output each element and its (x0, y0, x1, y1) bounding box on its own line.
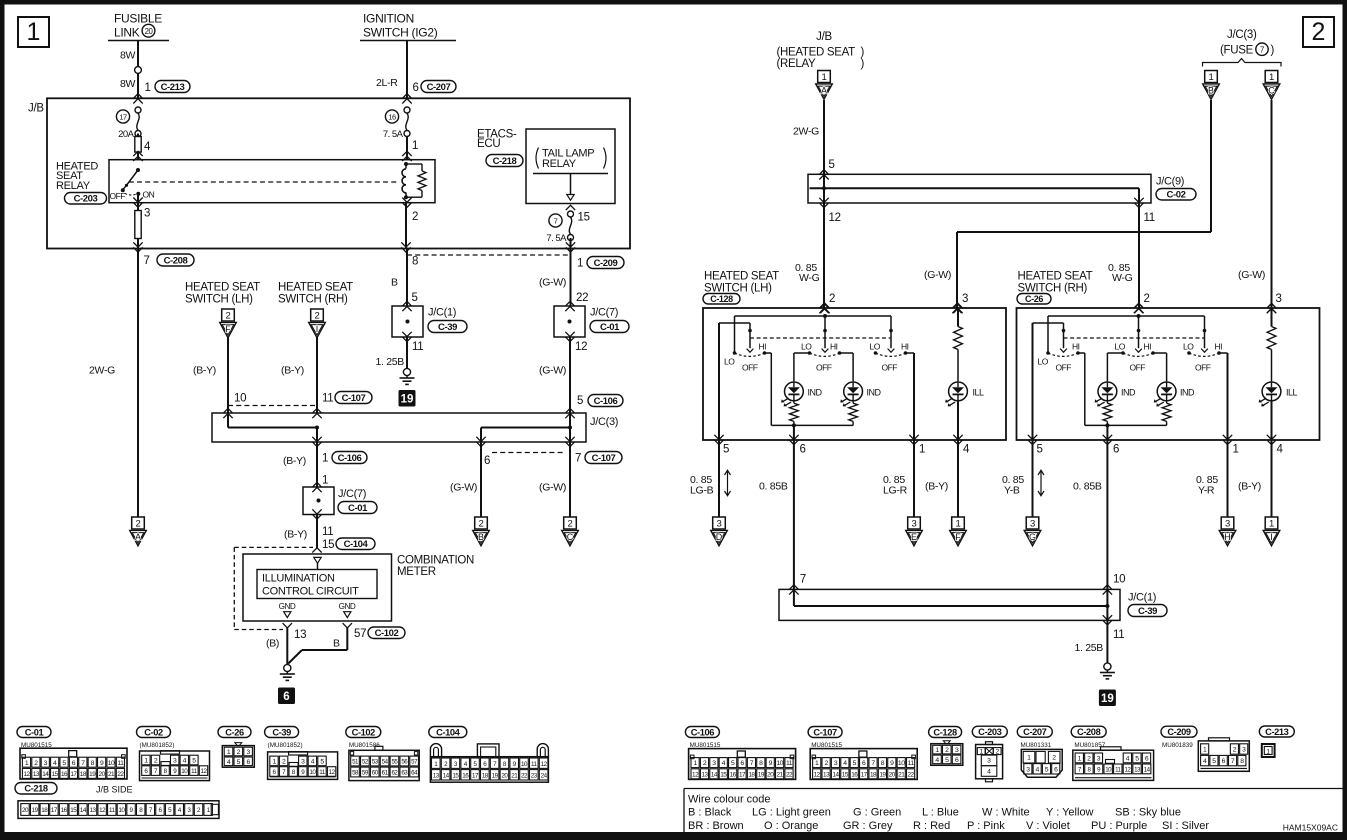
svg-text:7. 5A: 7. 5A (546, 233, 567, 244)
svg-text:13: 13 (823, 771, 830, 778)
svg-text:(G-W): (G-W) (539, 482, 566, 494)
svg-text:(B-Y): (B-Y) (284, 529, 307, 541)
svg-text:HEATED SEAT: HEATED SEAT (1018, 271, 1093, 283)
dashed tie pin10 pin11 (228, 405, 317, 407)
J/C(1) internal wires (793, 589, 795, 606)
svg-text:J/C(1): J/C(1) (1128, 592, 1156, 604)
svg-text:B: B (1208, 86, 1214, 96)
svg-text:BR : Brown: BR : Brown (688, 820, 744, 832)
svg-text:IND: IND (867, 387, 882, 397)
svg-text:HI: HI (830, 342, 838, 352)
svg-text:12: 12 (829, 212, 841, 224)
relay mechanical link dashed (129, 181, 399, 183)
svg-text:2: 2 (315, 311, 320, 322)
svg-text:(G-W): (G-W) (450, 482, 477, 494)
slide switch 1 (1062, 329, 1066, 333)
svg-text:11: 11 (191, 768, 198, 775)
svg-text:20: 20 (22, 807, 29, 814)
svg-text:13: 13 (701, 771, 708, 778)
combination meter box (243, 554, 392, 621)
switch box outline (703, 308, 1006, 440)
svg-text:C-39: C-39 (272, 727, 291, 737)
svg-text:C-107: C-107 (342, 393, 366, 404)
svg-text:J/B: J/B (816, 31, 832, 43)
svg-text:J/C(3): J/C(3) (1227, 29, 1257, 41)
slide switch 2 (1138, 316, 1140, 331)
svg-text:W-G: W-G (1112, 272, 1133, 284)
ILL resistor (957, 308, 959, 327)
svg-text:5: 5 (412, 292, 418, 304)
svg-text:6: 6 (413, 82, 419, 94)
svg-text:LG-R: LG-R (883, 485, 908, 497)
svg-text:0. 85B: 0. 85B (1073, 481, 1102, 493)
junction J/C(7) C-01 upper (554, 306, 585, 337)
connector C-208 pinout (1071, 726, 1106, 737)
svg-text:1: 1 (822, 72, 827, 83)
svg-text:19: 19 (492, 772, 499, 779)
svg-text:CONTROL CIRCUIT: CONTROL CIRCUIT (262, 586, 359, 598)
svg-text:15: 15 (842, 771, 849, 778)
fuse 16 7.5A (404, 107, 410, 113)
svg-text:12: 12 (814, 771, 821, 778)
svg-text:56: 56 (401, 759, 408, 766)
svg-text:10: 10 (1105, 767, 1112, 774)
svg-text:11: 11 (322, 526, 333, 538)
svg-text:GR : Grey: GR : Grey (843, 820, 893, 832)
svg-text:LO: LO (1183, 342, 1194, 352)
takeover source A (818, 71, 831, 83)
svg-text:LINK: LINK (114, 26, 140, 40)
svg-text:G: G (1029, 532, 1036, 542)
svg-text:(HEATED SEAT: (HEATED SEAT (777, 47, 856, 59)
svg-text:J/B: J/B (28, 103, 44, 115)
meter ground pins 13 57 (283, 623, 292, 628)
svg-text:4: 4 (1277, 444, 1284, 456)
svg-text:3: 3 (144, 208, 150, 220)
dashed tie pin6 pin7 (492, 452, 563, 454)
LH pin6 wire 0.85B (793, 440, 795, 589)
svg-text:17: 17 (739, 771, 746, 778)
svg-text:C-203: C-203 (978, 727, 1002, 737)
svg-text:OFF: OFF (1056, 363, 1072, 373)
svg-text:23: 23 (531, 772, 538, 779)
svg-text:19: 19 (401, 394, 414, 406)
svg-text:C-26: C-26 (225, 727, 244, 737)
svg-text:F: F (225, 324, 231, 334)
wire from fuse 7 (570, 238, 572, 248)
svg-text:58: 58 (352, 770, 359, 777)
svg-text:MU801839: MU801839 (1162, 742, 1193, 749)
svg-text:10: 10 (234, 393, 246, 405)
wire B-Y to combination meter (316, 515, 318, 548)
svg-text:E: E (911, 532, 917, 542)
svg-text:1: 1 (1209, 72, 1214, 83)
RH pin6 wire 0.85B (1106, 440, 1108, 589)
svg-text:METER: METER (397, 566, 436, 578)
relay pin 2 wire (402, 198, 411, 203)
svg-text:18: 18 (748, 771, 755, 778)
svg-text:C-102: C-102 (375, 628, 399, 639)
svg-text:8W: 8W (120, 50, 136, 62)
svg-text:4: 4 (987, 768, 991, 775)
svg-text:15: 15 (52, 771, 59, 778)
svg-text:ILL: ILL (1286, 387, 1298, 397)
svg-text:1: 1 (956, 519, 961, 530)
indicator LED 2 (844, 382, 863, 401)
IND resistor 1 (793, 400, 795, 403)
svg-text:16: 16 (851, 771, 858, 778)
svg-text:18: 18 (41, 807, 48, 814)
svg-text:W : White: W : White (982, 807, 1030, 819)
svg-text:RELAY: RELAY (542, 158, 577, 170)
svg-text:7: 7 (575, 453, 581, 465)
svg-text:11: 11 (412, 341, 423, 353)
svg-text:W-G: W-G (799, 272, 820, 284)
svg-text:13: 13 (33, 771, 40, 778)
svg-text:(G-W): (G-W) (539, 365, 566, 377)
svg-text:51: 51 (352, 759, 359, 766)
svg-text:GND: GND (279, 602, 296, 611)
svg-text:7: 7 (554, 217, 558, 226)
svg-text:54: 54 (382, 759, 389, 766)
switch mechanical dashed link (750, 337, 891, 339)
svg-text:5: 5 (829, 159, 835, 171)
svg-text:20: 20 (889, 771, 896, 778)
svg-text:6: 6 (1113, 444, 1119, 456)
wire B to J/C(1) (406, 248, 408, 307)
wire 1.25B to ground 19 (1106, 620, 1108, 662)
svg-text:12: 12 (692, 771, 699, 778)
indicator LED 1 (785, 382, 804, 401)
fuse 7 7.5A (566, 205, 575, 210)
svg-text:10: 10 (309, 769, 316, 776)
svg-text:16: 16 (462, 772, 469, 779)
svg-text:19: 19 (758, 771, 765, 778)
svg-text:2: 2 (568, 519, 573, 530)
connector C-02 pinout (137, 727, 171, 738)
svg-text:19: 19 (89, 771, 96, 778)
svg-text:C-01: C-01 (600, 322, 620, 333)
svg-text:LO: LO (1038, 357, 1049, 367)
svg-text:J/C(1): J/C(1) (428, 307, 456, 319)
svg-text:J/C(7): J/C(7) (338, 488, 366, 500)
wire G-W down to J/C(3) (569, 337, 571, 413)
wire B-Y from F (227, 338, 229, 414)
svg-text:C-106: C-106 (594, 396, 618, 407)
svg-text:J/C(3): J/C(3) (590, 416, 618, 428)
svg-text:C-106: C-106 (338, 453, 362, 464)
svg-text:11: 11 (117, 760, 124, 767)
svg-text:MU801586: MU801586 (349, 742, 380, 749)
svg-text:R : Red: R : Red (913, 820, 950, 832)
svg-text:12: 12 (575, 341, 587, 353)
wire 8W from fusible link (137, 41, 139, 99)
IND resistor 2 (1166, 400, 1168, 403)
svg-text:22: 22 (117, 771, 124, 778)
ecu internal arrow (570, 174, 572, 195)
svg-text:COMBINATION: COMBINATION (397, 555, 474, 567)
svg-text:14: 14 (42, 771, 49, 778)
svg-text:(MU801852): (MU801852) (140, 742, 175, 749)
illumination control circuit box (257, 570, 377, 599)
svg-text:14: 14 (1144, 767, 1151, 774)
wire G-W to takeover B (480, 442, 482, 517)
svg-text:(G-W): (G-W) (539, 277, 566, 289)
svg-text:GND: GND (339, 602, 356, 611)
switch pin5 branch (719, 322, 750, 324)
svg-text:2: 2 (226, 311, 231, 322)
svg-text:5: 5 (1037, 444, 1043, 456)
svg-text:ON: ON (143, 189, 155, 199)
svg-text:11: 11 (322, 393, 333, 405)
svg-text:2: 2 (1312, 18, 1326, 46)
svg-text:OFF: OFF (882, 363, 898, 373)
svg-text:): ) (1271, 45, 1275, 57)
wire G-W from C to RH pin 3 (1271, 100, 1273, 308)
svg-text:10: 10 (521, 761, 528, 768)
svg-text:3: 3 (912, 519, 917, 530)
svg-text:17: 17 (70, 771, 77, 778)
svg-text:1: 1 (1269, 519, 1274, 530)
connector C-104 pinout (429, 727, 467, 738)
svg-text:Y : Yellow: Y : Yellow (1046, 807, 1094, 819)
svg-text:19: 19 (879, 771, 886, 778)
svg-text:6: 6 (283, 691, 289, 703)
svg-text:C-26: C-26 (1025, 294, 1043, 304)
connector C-218 pinout (15, 783, 57, 795)
svg-text:C-128: C-128 (710, 294, 733, 304)
svg-text:12: 12 (99, 807, 106, 814)
svg-text:(B-Y): (B-Y) (1238, 481, 1261, 493)
svg-text:SWITCH (LH): SWITCH (LH) (185, 294, 253, 306)
svg-text:C-39: C-39 (1138, 606, 1157, 617)
svg-text:14: 14 (832, 771, 839, 778)
svg-text:C-207: C-207 (427, 82, 451, 93)
svg-text:C-208: C-208 (164, 255, 188, 266)
IND resistor 2 (852, 400, 854, 403)
svg-text:HAM15X09AC: HAM15X09AC (1283, 823, 1338, 833)
svg-text:1: 1 (1233, 444, 1239, 456)
connector C-209 pinout (1161, 726, 1197, 737)
svg-text:2: 2 (412, 211, 418, 223)
svg-text:18: 18 (870, 771, 877, 778)
svg-text:15: 15 (322, 539, 334, 551)
svg-text:21: 21 (777, 771, 784, 778)
svg-text:LO: LO (801, 342, 812, 352)
svg-text:10: 10 (898, 760, 905, 767)
svg-text:SWITCH (RH): SWITCH (RH) (1018, 282, 1088, 294)
wire 0.85 W-G to RH switch pin 2 (1138, 203, 1140, 308)
svg-text:6: 6 (800, 444, 806, 456)
svg-text:MU801331: MU801331 (1021, 742, 1052, 749)
connector C-107 pinout (808, 727, 842, 738)
connector C-01 pinout (17, 727, 51, 738)
switch ground rail (771, 424, 853, 426)
svg-text:(RELAY: (RELAY (777, 58, 817, 70)
svg-text:C: C (567, 532, 574, 542)
svg-text:B: B (333, 638, 340, 650)
svg-text:12: 12 (200, 768, 207, 775)
svg-text:J/C(9): J/C(9) (1156, 176, 1184, 188)
svg-text:8: 8 (412, 256, 418, 268)
switch mechanical dashed link (1064, 337, 1205, 339)
svg-text:(G-W): (G-W) (1238, 269, 1265, 281)
svg-text:20: 20 (767, 771, 774, 778)
svg-text:SWITCH (IG2): SWITCH (IG2) (363, 26, 438, 40)
svg-text:C-104: C-104 (344, 539, 369, 550)
slide switch 3 (1204, 316, 1206, 331)
svg-text:C-102: C-102 (352, 727, 376, 737)
illumination LED (1262, 382, 1281, 401)
svg-text:C-107: C-107 (813, 727, 837, 737)
svg-text:11: 11 (1144, 212, 1155, 224)
grouping bracket (1203, 59, 1282, 67)
svg-text:J/B SIDE: J/B SIDE (96, 785, 133, 795)
svg-text:15: 15 (720, 771, 727, 778)
takeover point A bottom (132, 517, 145, 529)
svg-text:16: 16 (388, 113, 396, 122)
svg-text:3: 3 (717, 519, 722, 530)
svg-text:12: 12 (329, 769, 336, 776)
svg-text:61: 61 (382, 770, 389, 777)
svg-text:2: 2 (479, 519, 484, 530)
svg-text:20: 20 (99, 771, 106, 778)
svg-text:C-39: C-39 (438, 322, 457, 333)
svg-text:18: 18 (80, 771, 87, 778)
svg-text:1: 1 (1269, 72, 1274, 83)
svg-text:G : Green: G : Green (853, 807, 901, 819)
LH pin1 wire 0.85 LG-R to E (913, 440, 915, 517)
meter input arrow (314, 557, 321, 563)
svg-text:IND: IND (1121, 387, 1136, 397)
wire G-W from B to LH pin 3 (1210, 100, 1212, 232)
connector C-102 pinout (346, 727, 381, 738)
svg-text:17: 17 (51, 807, 58, 814)
svg-text:2: 2 (1144, 293, 1150, 305)
svg-text:IND: IND (1180, 387, 1195, 397)
connector C-106 pinout (685, 727, 719, 738)
svg-text:22: 22 (576, 292, 588, 304)
page border frame (0, 0, 1347, 5)
svg-text:C-218: C-218 (24, 784, 48, 794)
svg-text:OFF: OFF (816, 363, 832, 373)
svg-text:19: 19 (32, 807, 39, 814)
wire 2L-R (406, 41, 408, 99)
svg-text:22: 22 (521, 772, 528, 779)
svg-text:11: 11 (786, 760, 793, 767)
svg-text:7: 7 (144, 255, 150, 267)
wire G-W to takeover C (569, 442, 571, 517)
svg-text:FUSIBLE: FUSIBLE (114, 12, 162, 26)
svg-text:3: 3 (962, 293, 968, 305)
RH pin5 wire 0.85 Y-B to G (1032, 440, 1034, 517)
svg-text:3: 3 (1030, 519, 1035, 530)
LH pin4 wire B-Y to F (957, 440, 959, 517)
svg-text:1: 1 (919, 444, 925, 456)
illumination LED (949, 382, 968, 401)
svg-text:ECU: ECU (477, 138, 500, 150)
svg-text:HI: HI (901, 342, 909, 352)
wires to ground 6 (286, 628, 288, 664)
svg-text:2: 2 (1052, 755, 1056, 762)
tail lamp relay label (536, 148, 539, 169)
svg-text:C-208: C-208 (1077, 727, 1101, 737)
svg-text:22: 22 (786, 771, 793, 778)
svg-text:): ) (861, 58, 865, 70)
svg-text:(G-W): (G-W) (924, 269, 951, 281)
svg-text:SI : Silver: SI : Silver (1162, 820, 1209, 832)
svg-text:HI: HI (1072, 342, 1080, 352)
svg-text:4: 4 (144, 141, 151, 153)
svg-text:12: 12 (541, 761, 548, 768)
svg-text:17: 17 (861, 771, 868, 778)
svg-text:11: 11 (1113, 629, 1124, 641)
svg-text:1. 25B: 1. 25B (375, 356, 404, 368)
connector C-39 pinout (265, 727, 299, 738)
svg-text:3: 3 (1225, 519, 1230, 530)
connector C-26 pinout (218, 727, 251, 738)
svg-text:Y-R: Y-R (1198, 485, 1215, 497)
svg-text:10: 10 (1113, 574, 1125, 586)
svg-text:HEATED SEAT: HEATED SEAT (185, 282, 260, 294)
svg-text:OFF: OFF (1130, 363, 1146, 373)
IND resistor 1 (1106, 400, 1108, 403)
svg-text:19: 19 (1101, 693, 1114, 705)
svg-text:D: D (716, 532, 723, 542)
svg-text:LO: LO (1115, 342, 1126, 352)
svg-text:Wire colour code: Wire colour code (688, 794, 771, 806)
svg-text:24: 24 (541, 772, 548, 779)
junction J/C(1) C-39 upper (392, 306, 423, 337)
J/C(3) internal wires (227, 413, 229, 428)
svg-text:2W-G: 2W-G (89, 365, 115, 377)
svg-text:16: 16 (61, 771, 68, 778)
svg-text:1: 1 (577, 258, 583, 270)
svg-text:L : Blue: L : Blue (922, 807, 959, 819)
wire B-Y from I (316, 338, 318, 414)
junction block J/C(1) C-39 lower (779, 589, 1120, 620)
J/C(9) internal wires (823, 174, 825, 188)
svg-text:B: B (391, 277, 398, 289)
svg-text:Y-B: Y-B (1004, 485, 1020, 497)
svg-text:IND: IND (808, 387, 823, 397)
svg-text:13: 13 (89, 807, 96, 814)
svg-text:14: 14 (80, 807, 87, 814)
switch pin5 branch (1033, 322, 1064, 324)
svg-text:HEATED SEAT: HEATED SEAT (278, 282, 353, 294)
svg-text:4: 4 (963, 444, 970, 456)
svg-text:8W: 8W (120, 78, 136, 90)
relay pin 3 wire to 2W-G (133, 198, 142, 203)
svg-text:B : Black: B : Black (688, 807, 732, 819)
svg-text:SWITCH (RH): SWITCH (RH) (278, 294, 348, 306)
svg-text:H: H (1224, 532, 1231, 542)
svg-text:C: C (1268, 86, 1275, 96)
svg-text:C-107: C-107 (592, 453, 616, 464)
svg-text:HI: HI (1144, 342, 1152, 352)
svg-text:1: 1 (412, 140, 418, 152)
svg-text:C-106: C-106 (691, 727, 715, 737)
connector C-203 pinout (972, 726, 1007, 737)
svg-text:I: I (1270, 532, 1273, 542)
svg-text:7. 5A: 7. 5A (383, 129, 404, 140)
connector C-128 pinout (929, 727, 962, 738)
svg-text:OFF: OFF (110, 191, 126, 201)
svg-text:20A: 20A (118, 129, 135, 140)
svg-text:O : Orange: O : Orange (764, 820, 818, 832)
svg-text:16: 16 (730, 771, 737, 778)
switch ground rail (1085, 424, 1167, 426)
